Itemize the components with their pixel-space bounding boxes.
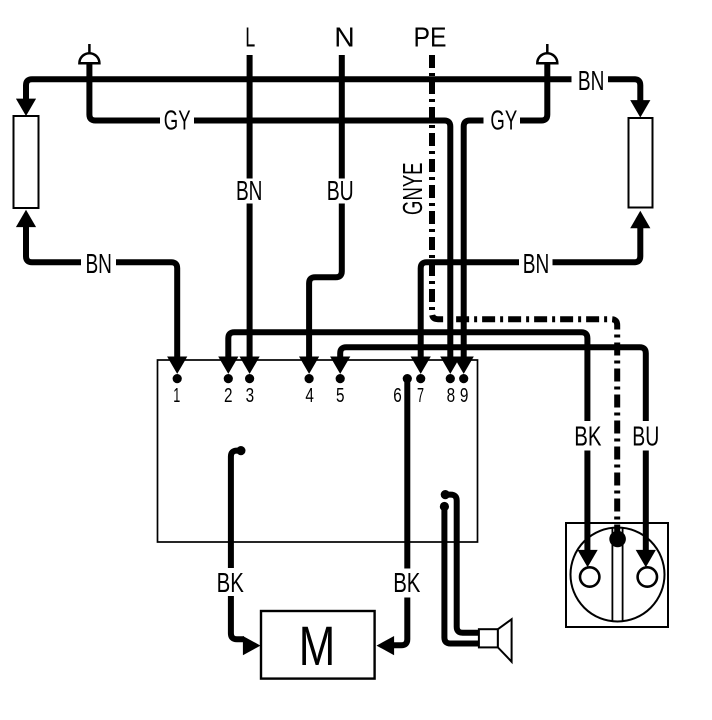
wire BN left (suppressor to terminal 1) [16, 210, 187, 374]
terminal dot 3 [245, 374, 254, 383]
wire GY left (lamp to terminal 8) [89, 63, 460, 374]
wire terminal 2 to socket BK pin [218, 332, 598, 567]
suppressor Z2 right [629, 118, 653, 208]
svg-text:4: 4 [305, 385, 314, 407]
svg-text:N: N [334, 22, 355, 53]
wire terminal 5 to socket BU pin [330, 347, 656, 567]
terminal dot 7 [416, 374, 425, 383]
svg-text:L: L [245, 22, 255, 53]
wire terminal 6 to motor right [377, 379, 408, 656]
wire L line to terminal 3 [240, 55, 260, 374]
svg-text:BN: BN [578, 65, 605, 96]
svg-text:GY: GY [164, 105, 191, 136]
svg-text:BU: BU [327, 175, 354, 206]
svg-text:1: 1 [173, 385, 180, 407]
terminal dot 5 [336, 374, 345, 383]
svg-text:8: 8 [447, 385, 456, 407]
wire PE line (dash-dot) to socket earth pin [432, 55, 617, 532]
svg-text:BK: BK [217, 567, 245, 598]
buzzer H1 [479, 619, 512, 662]
terminal dot 8 [446, 374, 455, 383]
socket outlet X2 [566, 523, 668, 627]
motor M1 box [261, 611, 375, 679]
svg-text:BU: BU [632, 421, 659, 452]
svg-text:BN: BN [523, 248, 550, 279]
lamp E1 left [79, 44, 99, 63]
svg-text:BK: BK [574, 421, 602, 452]
svg-text:GY: GY [490, 105, 517, 136]
lamp E2 right [537, 44, 557, 63]
svg-text:9: 9 [460, 385, 469, 407]
svg-text:3: 3 [246, 385, 255, 407]
terminal dot 9 [459, 374, 468, 383]
svg-text:BN: BN [236, 175, 263, 206]
wire BN right (suppressor to terminal 7) [411, 211, 651, 374]
wire buzzer lower [440, 502, 479, 644]
wire main BN top [16, 79, 651, 117]
terminal dot 6 [403, 374, 412, 383]
svg-text:PE: PE [414, 22, 447, 53]
svg-text:M: M [299, 615, 336, 677]
suppressor Z1 left [14, 116, 39, 208]
svg-text:6: 6 [393, 385, 402, 407]
wire internal BK to motor left [231, 446, 261, 655]
terminal box X1 [158, 360, 478, 542]
junction dot socket earth [609, 531, 626, 548]
svg-text:5: 5 [336, 385, 345, 407]
svg-text:2: 2 [224, 385, 233, 407]
terminal dot 4 [305, 374, 314, 383]
wire buzzer upper [441, 490, 479, 633]
terminal dot 1 [173, 374, 182, 383]
svg-text:BN: BN [85, 248, 112, 279]
wire GY right (lamp to terminal 9) [454, 63, 548, 374]
terminal dot 2 [224, 374, 233, 383]
svg-text:GNYE: GNYE [397, 162, 428, 215]
wire N line to terminal 4 [299, 55, 342, 374]
svg-text:7: 7 [417, 385, 424, 407]
svg-text:BK: BK [393, 567, 421, 598]
